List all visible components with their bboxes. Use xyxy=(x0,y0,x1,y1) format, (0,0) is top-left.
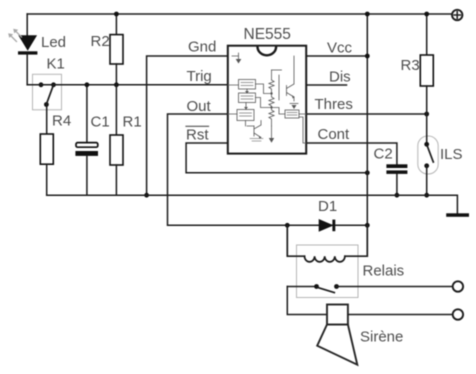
wire: Out pin to relay/D1 line xyxy=(168,114,368,225)
node: Vcc junction xyxy=(365,54,370,59)
svg-text:Relais: Relais xyxy=(363,263,405,280)
wire: Vcc pin xyxy=(306,55,367,57)
wire: +V top rail xyxy=(27,13,452,15)
svg-text:C2: C2 xyxy=(374,146,393,163)
node: R2 top junction xyxy=(114,12,119,17)
power terminal + xyxy=(452,10,462,20)
svg-text:Rst: Rst xyxy=(186,127,209,144)
wire: Dis pin stub xyxy=(306,84,346,86)
node: C1/Trig junction xyxy=(85,82,90,87)
wire: Thres pin to R3/ILS xyxy=(306,113,427,115)
resistor R4 xyxy=(40,105,53,196)
wire: ground rail xyxy=(47,195,458,213)
internal control block right xyxy=(285,110,299,118)
node: D1 anode junction xyxy=(285,223,290,228)
svg-text:Cont: Cont xyxy=(318,126,351,143)
wire: coil right lead xyxy=(345,225,367,256)
node: Rst/+V junction xyxy=(365,170,370,175)
internal output stage block xyxy=(237,110,254,121)
internal tiny label xyxy=(250,139,263,142)
relay contact K1 xyxy=(33,74,62,110)
resistor R1 xyxy=(110,85,123,195)
relay switch contacts xyxy=(287,286,316,288)
svg-text:Thres: Thres xyxy=(315,96,353,113)
internal transistor Q xyxy=(287,56,295,97)
node: R3 top junction xyxy=(424,12,429,17)
internal comparator block 1 xyxy=(239,80,256,90)
resistor R3 xyxy=(420,14,433,114)
wire: Cont pin to C2 xyxy=(306,143,397,164)
node: Gnd/rail junction xyxy=(144,193,149,198)
svg-text:R1: R1 xyxy=(123,114,142,131)
wire: +V vertical (top rail to relay coil) xyxy=(366,14,368,225)
svg-text:R2: R2 xyxy=(91,33,110,50)
internal ground arrow top-left xyxy=(232,53,239,59)
svg-text:Dis: Dis xyxy=(329,69,351,86)
svg-text:NE555: NE555 xyxy=(244,26,291,43)
svg-text:Led: Led xyxy=(41,34,66,51)
loudspeaker Sirène xyxy=(317,305,357,365)
internal transistor Q2 bottom-left xyxy=(254,125,261,138)
NE555 internal diagram xyxy=(228,53,306,143)
svg-text:C1: C1 xyxy=(91,114,110,131)
svg-text:Gnd: Gnd xyxy=(188,39,216,56)
node: C2/rail junction xyxy=(395,193,400,198)
node: R2/R1/Trig junction xyxy=(114,82,119,87)
op-amp U1 NE555 body xyxy=(228,46,306,154)
terminal 1 xyxy=(453,281,463,291)
wire: Gnd pin to ground rail xyxy=(147,56,228,195)
relay Relais xyxy=(287,225,367,297)
internal divider chain xyxy=(271,70,273,80)
reed switch ILS xyxy=(418,114,438,195)
ground xyxy=(446,213,469,217)
terminal 2 xyxy=(453,309,463,319)
resistor R2 xyxy=(110,14,123,85)
wire: Trig net (LED to IC) xyxy=(27,84,228,86)
svg-text:ILS: ILS xyxy=(440,146,463,163)
wire: relay contact to terminal 1 xyxy=(337,286,453,288)
svg-text:Vcc: Vcc xyxy=(327,40,353,57)
wire: siren to terminal 2 xyxy=(348,314,453,316)
capacitor C2 xyxy=(386,164,407,195)
svg-text:K1: K1 xyxy=(47,56,65,73)
node: Thres/R3/ILS junction xyxy=(424,112,429,117)
wire: Rst pin tied to +V xyxy=(186,143,367,173)
internal wiring left-right xyxy=(256,84,271,108)
svg-text:R4: R4 xyxy=(52,113,71,130)
diode D1 xyxy=(319,220,335,232)
capacitor C1 xyxy=(75,85,98,195)
svg-text:R3: R3 xyxy=(401,57,420,74)
node: ILS/rail junction xyxy=(424,193,429,198)
svg-text:Sirène: Sirène xyxy=(360,329,403,346)
svg-text:D1: D1 xyxy=(318,198,337,215)
node: +V rail junction xyxy=(365,12,370,17)
inductor coil xyxy=(305,256,345,262)
internal chain ground arrow xyxy=(269,138,274,143)
wire: coil left lead xyxy=(287,225,304,256)
internal flip-flop block xyxy=(239,93,256,103)
internal block connections xyxy=(228,85,247,126)
node: D1 cathode junction xyxy=(365,223,370,228)
svg-text:Out: Out xyxy=(187,98,212,115)
wire: relay to siren xyxy=(287,287,327,315)
LED D (Led) xyxy=(8,14,37,85)
svg-text:Trig: Trig xyxy=(187,68,212,85)
